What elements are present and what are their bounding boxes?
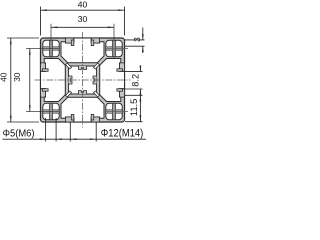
- left T-slot cavity: [41, 59, 66, 102]
- dimension 8.2 right: [125, 65, 143, 95]
- svg-text:11.5: 11.5: [128, 99, 139, 117]
- svg-text:Φ5(M6): Φ5(M6): [3, 128, 35, 140]
- dimension 3 top right: [125, 28, 145, 54]
- svg-text:30: 30: [78, 14, 88, 24]
- dimension 40 left: [0, 38, 39, 122]
- corner holes phi5 (M6): [43, 40, 122, 119]
- corner hole centrelines: [26, 24, 128, 120]
- label phi5(M6) bottom left: [3, 118, 71, 142]
- right T-slot cavity: [100, 59, 125, 102]
- svg-text:Φ12(M14): Φ12(M14): [101, 128, 144, 140]
- svg-text:30: 30: [12, 72, 22, 82]
- bottom T-slot cavity: [61, 97, 104, 122]
- slot lip blocks: [41, 38, 125, 122]
- dimension 40 top: [41, 0, 125, 35]
- centre bore cavity (phi12/M14): [65, 63, 99, 97]
- svg-text:40: 40: [0, 72, 9, 82]
- dimension 11.5 right: [125, 95, 143, 121]
- svg-text:8.2: 8.2: [130, 74, 140, 87]
- svg-text:40: 40: [78, 0, 88, 9]
- dimension 30 left: [12, 49, 31, 112]
- dimension 30 top: [51, 14, 114, 28]
- svg-text:3: 3: [132, 37, 142, 42]
- label phi12(M14) bottom right: [70, 122, 146, 142]
- top T-slot cavity: [61, 38, 104, 63]
- vertical centreline: [82, 32, 84, 128]
- horizontal centreline: [35, 79, 131, 81]
- profile body (40x40 extrusion outer square): [41, 38, 125, 122]
